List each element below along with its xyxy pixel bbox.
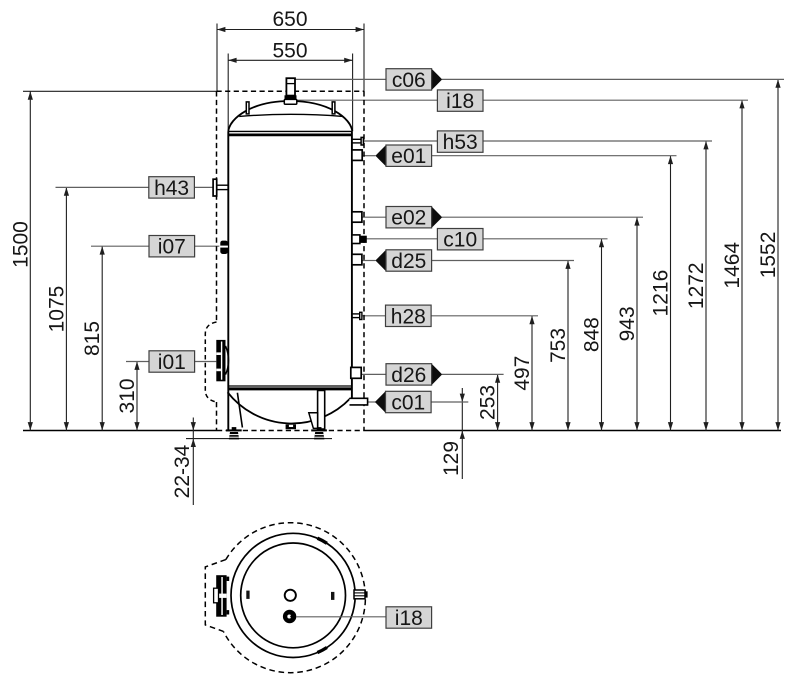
svg-text:129: 129 — [440, 441, 463, 476]
svg-text:d25: d25 — [391, 250, 426, 273]
svg-text:1464: 1464 — [721, 242, 744, 289]
svg-text:h28: h28 — [391, 305, 426, 328]
svg-text:1272: 1272 — [685, 262, 708, 309]
svg-text:i18: i18 — [446, 90, 474, 113]
svg-text:i01: i01 — [158, 351, 186, 374]
svg-text:22-34: 22-34 — [171, 444, 194, 498]
svg-text:310: 310 — [116, 378, 139, 413]
svg-text:c01: c01 — [391, 392, 425, 415]
svg-text:e01: e01 — [391, 145, 426, 168]
svg-text:h53: h53 — [443, 131, 478, 154]
svg-text:815: 815 — [81, 321, 104, 356]
svg-text:848: 848 — [581, 317, 604, 352]
svg-text:753: 753 — [547, 328, 570, 363]
svg-text:d26: d26 — [391, 364, 426, 387]
svg-text:e02: e02 — [391, 207, 426, 230]
svg-text:253: 253 — [477, 385, 500, 420]
svg-text:1552: 1552 — [757, 232, 780, 279]
svg-text:1500: 1500 — [9, 221, 32, 268]
svg-text:i18: i18 — [395, 607, 423, 630]
svg-text:650: 650 — [272, 8, 307, 31]
svg-text:943: 943 — [616, 306, 639, 341]
svg-text:i07: i07 — [158, 236, 186, 259]
svg-text:1216: 1216 — [650, 270, 673, 317]
svg-text:550: 550 — [272, 40, 307, 63]
svg-text:1075: 1075 — [45, 286, 68, 333]
svg-text:497: 497 — [511, 356, 534, 391]
svg-text:h43: h43 — [154, 177, 189, 200]
svg-text:c06: c06 — [392, 69, 426, 92]
svg-text:c10: c10 — [443, 229, 477, 252]
